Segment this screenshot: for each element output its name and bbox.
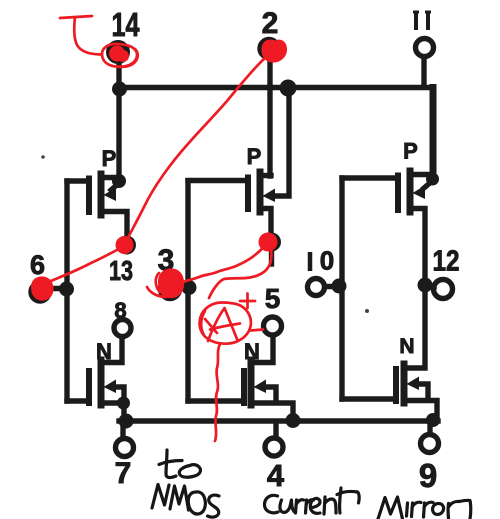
red blob on pin 2 bbox=[261, 40, 287, 63]
red blob on pin 3 bbox=[158, 268, 184, 298]
pin 4 stem bbox=[273, 423, 278, 436]
pin 4 terminal bbox=[265, 438, 283, 456]
pin 14 terminal bbox=[106, 40, 130, 64]
red ammeter circle bbox=[200, 303, 251, 344]
red tail from node to ammeter bbox=[209, 250, 271, 298]
transistor P2 channel bar bbox=[257, 172, 264, 212]
pin 6 terminal bbox=[31, 283, 49, 301]
svg-text:4: 4 bbox=[267, 458, 285, 493]
node pin3 junction bbox=[182, 280, 197, 295]
svg-text:14: 14 bbox=[112, 6, 140, 43]
transistor P2 substrate arrow bbox=[263, 189, 276, 203]
pin 6 lead bbox=[46, 286, 66, 291]
wire supply to P1 bbox=[116, 89, 121, 181]
transistor P3 gate lead bbox=[342, 175, 396, 180]
red blob inside pin 14 bbox=[109, 46, 125, 62]
red squiggle down from ammeter bbox=[215, 344, 220, 441]
svg-text:N: N bbox=[399, 335, 414, 358]
pin 8 terminal bbox=[114, 320, 131, 337]
transistor P3 gate bar bbox=[395, 176, 401, 211]
svg-text:2: 2 bbox=[262, 7, 279, 40]
pin 11 stem bbox=[421, 57, 426, 85]
pin 12 terminal bbox=[434, 280, 453, 299]
pin 3 lead bbox=[176, 285, 188, 290]
transistor P2 drain lead bbox=[262, 209, 271, 235]
svg-text:0: 0 bbox=[320, 246, 334, 276]
handwriting Mirror bbox=[378, 497, 403, 519]
transistor N2 source lead bbox=[253, 403, 293, 420]
pin 12 lead bbox=[432, 284, 434, 289]
pin 10 lead bbox=[326, 284, 339, 289]
red scribble circle around pin 14 bbox=[102, 44, 138, 67]
wire bus right corner down to P3 bbox=[430, 88, 437, 181]
transistor N2 gate bar bbox=[241, 371, 247, 403]
red blob on pin 6 bbox=[31, 276, 54, 300]
pin 7 terminal bbox=[116, 439, 134, 457]
node N2 source junction bbox=[286, 413, 301, 428]
node pin12 junction bbox=[418, 278, 433, 293]
wire pin2 vertical to P2 source bbox=[267, 58, 272, 176]
transistor N3 drain lead bbox=[406, 290, 425, 368]
transistor N1 channel bar bbox=[98, 360, 105, 405]
transistor P2 gate lead bbox=[188, 178, 246, 183]
red minus sign bbox=[251, 330, 263, 331]
node junction pin14/bus bbox=[112, 82, 127, 97]
wire gate rail column1 bbox=[64, 181, 69, 401]
node pin10 junction bbox=[332, 279, 347, 294]
transistor P2 source lead bbox=[262, 173, 271, 178]
transistor N2 substrate arrow bbox=[254, 380, 267, 394]
red plus sign bbox=[240, 294, 255, 309]
transistor P3 source lead bbox=[412, 172, 432, 177]
node N1 source junction bbox=[117, 397, 130, 410]
svg-text:13: 13 bbox=[109, 255, 133, 286]
transistor P3 drain lead bbox=[412, 209, 425, 278]
red curve pin2 to node 13 bbox=[126, 59, 264, 242]
red ammeter A bbox=[205, 308, 240, 341]
transistor N1 gate lead bbox=[67, 398, 88, 403]
transistor P1 gate bar bbox=[86, 179, 92, 213]
svg-text:P: P bbox=[102, 146, 117, 171]
transistor N2 gate lead bbox=[188, 398, 242, 403]
transistor P1 drain lead bbox=[103, 212, 127, 239]
svg-text:7: 7 bbox=[115, 457, 132, 490]
transistor N3 channel bar bbox=[401, 364, 408, 403]
svg-text:12: 12 bbox=[433, 246, 460, 278]
handwriting NMOS bbox=[152, 485, 169, 509]
red dot on P2 drain node bbox=[259, 233, 278, 252]
pin 7 stem bbox=[120, 423, 125, 436]
transistor P1 channel bar bbox=[98, 174, 105, 215]
node rail pin7 junction bbox=[119, 414, 134, 429]
transistor P3 channel bar bbox=[407, 171, 414, 212]
wire stub below node bbox=[269, 250, 274, 264]
transistor P3 substrate arrow bbox=[424, 182, 431, 188]
pin 11 terminal bbox=[416, 39, 434, 57]
svg-text:N: N bbox=[96, 339, 112, 364]
speck left bbox=[41, 155, 45, 159]
pin 10 terminal bbox=[308, 279, 325, 296]
svg-text:6: 6 bbox=[30, 250, 45, 280]
node P2 drain terminal bbox=[262, 233, 281, 252]
pin 9 terminal bbox=[421, 435, 439, 453]
transistor N1 drain lead bbox=[103, 338, 122, 363]
wire VSS bottom rail bbox=[119, 418, 438, 423]
transistor P1 source lead bbox=[103, 175, 119, 180]
wire gate rail column2 bbox=[185, 181, 190, 401]
node N3 rail junction bbox=[426, 413, 440, 427]
svg-text:N: N bbox=[244, 339, 260, 364]
handwriting current bbox=[265, 495, 279, 512]
node junction bus/P2 substrate bbox=[280, 80, 297, 97]
transistor N3 source lead bbox=[406, 401, 437, 421]
transistor N2 channel bar bbox=[248, 360, 255, 405]
transistor N2 drain lead bbox=[253, 336, 273, 363]
wire VDD bus bbox=[118, 85, 433, 90]
node pin6 junction bbox=[59, 282, 74, 297]
red squiggle pin3 to P2 drain node bbox=[181, 243, 268, 283]
svg-text:9: 9 bbox=[419, 457, 437, 494]
transistor P1 gate lead bbox=[67, 178, 88, 183]
transistor N3 gate lead bbox=[342, 396, 394, 401]
handwriting to bbox=[159, 450, 182, 478]
red line pin6 to node 13 bbox=[37, 246, 124, 287]
transistor N1 substrate arrow bbox=[104, 380, 117, 394]
svg-text:P: P bbox=[403, 139, 418, 164]
svg-text:P: P bbox=[247, 144, 262, 169]
pin 14 stem bbox=[116, 60, 121, 90]
pin 2 terminal bbox=[260, 40, 278, 58]
speck right bbox=[365, 309, 369, 313]
wire P2 substrate from bus bbox=[274, 90, 289, 196]
transistor P2 gate bar bbox=[245, 178, 251, 210]
svg-text:5: 5 bbox=[265, 283, 281, 314]
transistor N1 gate bar bbox=[86, 371, 92, 403]
red dot on node 13 bbox=[116, 236, 134, 254]
transistor N1 source lead bbox=[103, 403, 124, 420]
red T probe mark top-left bbox=[60, 16, 102, 55]
transistor P1 substrate arrow bbox=[111, 184, 118, 190]
pin 5 terminal bbox=[264, 317, 282, 335]
transistor N3 substrate arrow bbox=[407, 377, 420, 391]
pin 9 stem bbox=[427, 422, 432, 433]
node P3 source junction bbox=[426, 173, 439, 186]
pin 3 terminal bbox=[161, 280, 180, 299]
label 10 bbox=[310, 246, 334, 276]
label 11 bbox=[413, 12, 431, 30]
node 13 terminal bbox=[117, 236, 136, 255]
transistor N3 gate bar bbox=[393, 369, 399, 401]
node P1 source junction bbox=[112, 174, 126, 188]
wire gate rail column3 bbox=[339, 178, 344, 399]
